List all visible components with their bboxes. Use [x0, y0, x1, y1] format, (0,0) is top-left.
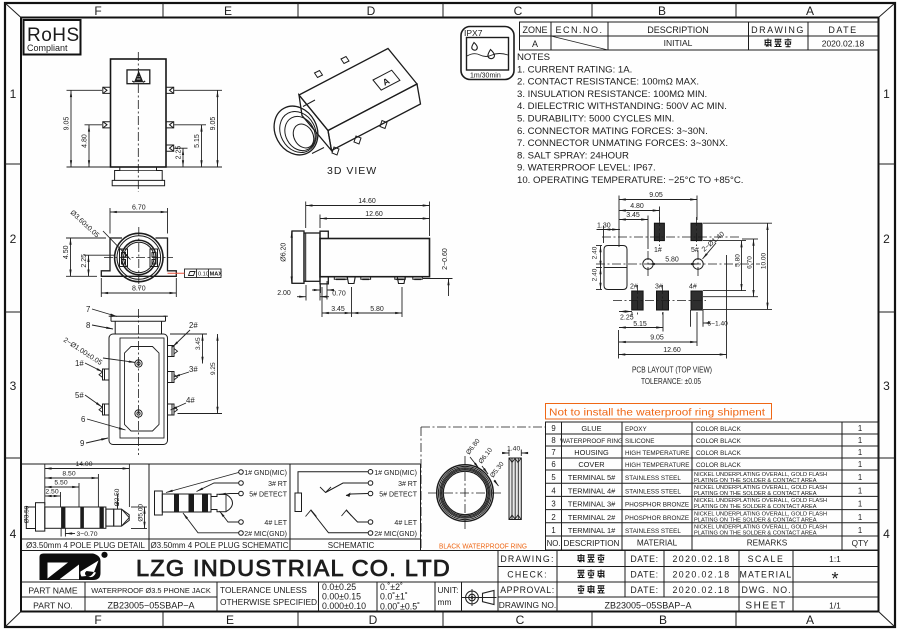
svg-text:NOTES: NOTES	[517, 52, 550, 63]
svg-text:REMARKS: REMARKS	[747, 539, 788, 548]
svg-text:7. CONNECTOR UNMATING FORCE: 7. CONNECTOR UNMATING FORCES: 3~30NX.	[517, 138, 728, 149]
svg-text:14.60: 14.60	[358, 198, 376, 205]
svg-text:3# RT: 3# RT	[268, 481, 288, 488]
svg-text:DRAWING: DRAWING	[751, 25, 805, 35]
dim 12.60	[320, 215, 430, 229]
approval table right	[498, 551, 879, 612]
svg-text:PART NAME: PART NAME	[28, 586, 77, 596]
left tabs	[99, 369, 109, 415]
terminal slots	[120, 249, 158, 267]
bracket 5-1.40	[691, 310, 708, 327]
plug handle	[36, 503, 45, 531]
top cap	[111, 316, 166, 321]
left tab pins	[103, 87, 111, 128]
dim dia2.50 tip	[117, 494, 119, 509]
svg-text:5.80: 5.80	[665, 257, 679, 264]
3d small tabs	[315, 57, 388, 156]
revision table	[520, 22, 879, 50]
svg-text:6. CONNECTOR MATING FORCES:: 6. CONNECTOR MATING FORCES: 3~30N.	[517, 126, 708, 137]
svg-text:12.60: 12.60	[365, 211, 383, 218]
svg-text:Ø3.50mm 4 POLE PLUG DETAIL: Ø3.50mm 4 POLE PLUG DETAIL	[26, 541, 146, 550]
IPX7 waterproof icon	[461, 27, 514, 80]
svg-text:1: 1	[858, 473, 862, 482]
svg-text:0.0±0.25: 0.0±0.25	[322, 582, 356, 592]
svg-text:5: 5	[551, 473, 556, 482]
dim 3.45	[619, 216, 648, 250]
bottom panels frame	[22, 464, 421, 551]
dim 4.80 left	[85, 125, 103, 167]
circular front view	[63, 205, 222, 298]
svg-text:9. WATERPROOF LEVEL: IP67.: 9. WATERPROOF LEVEL: IP67.	[517, 163, 656, 174]
svg-text:2. CONTACT RESISTANCE: 100m: 2. CONTACT RESISTANCE: 100mΩ MAX.	[517, 77, 699, 88]
hole left	[643, 259, 653, 269]
dim 9.05 bottom	[619, 312, 697, 346]
plug neck	[106, 509, 114, 526]
leader 2-dia1.40	[701, 231, 726, 259]
right tabs	[168, 346, 178, 416]
orange warning note	[546, 404, 772, 420]
plug cable end	[26, 507, 35, 529]
svg-text:3: 3	[883, 379, 890, 393]
svg-text:mm: mm	[438, 597, 452, 607]
inner rect	[120, 338, 164, 438]
dim 5.15 bottom	[619, 312, 663, 332]
svg-text:DRAWING:: DRAWING:	[500, 554, 554, 564]
insulator band 2	[80, 507, 84, 528]
svg-text:COLOR BLACK: COLOR BLACK	[696, 462, 742, 469]
dim 2.40 x2 left	[596, 246, 602, 290]
waterproof ring panel phantom border	[421, 427, 546, 551]
zone tick marks left band	[5, 164, 21, 458]
svg-text:CHECK:: CHECK:	[507, 570, 547, 580]
leader dia 3.60	[69, 209, 131, 259]
svg-text:9.05: 9.05	[650, 335, 664, 342]
svg-text:5.80: 5.80	[370, 306, 384, 313]
svg-text:MATERIAL: MATERIAL	[740, 570, 793, 580]
contact 5#	[346, 494, 368, 496]
svg-text:TERMINAL 3#: TERMINAL 3#	[568, 500, 616, 509]
dim 8.50	[45, 474, 99, 507]
svg-text:6.70: 6.70	[132, 205, 146, 212]
jack contact rect	[295, 493, 302, 512]
svg-text:9: 9	[80, 439, 84, 448]
svg-text:STAINLESS STEEL: STAINLESS STEEL	[625, 488, 681, 495]
svg-text:D: D	[367, 4, 376, 18]
svg-text:4. DIELECTRIC WITHSTANDING:: 4. DIELECTRIC WITHSTANDING: 500V AC MIN.	[517, 101, 727, 112]
svg-text:0.000±0.10: 0.000±0.10	[322, 601, 366, 611]
svg-text:4: 4	[10, 527, 17, 541]
svg-text:1: 1	[858, 424, 862, 433]
ring circles	[437, 465, 494, 522]
pad 4#	[691, 291, 702, 310]
svg-text:7: 7	[551, 448, 555, 457]
svg-text:1.30: 1.30	[597, 223, 611, 230]
svg-text:HIGH TEMPERATURE: HIGH TEMPERATURE	[625, 462, 690, 469]
svg-text:3.45: 3.45	[626, 212, 640, 219]
svg-text:PCB LAYOUT (TOP VIEW): PCB LAYOUT (TOP VIEW)	[632, 365, 712, 375]
side view	[277, 198, 452, 317]
svg-text:PLATING ON THE SOLDER & C: PLATING ON THE SOLDER & CONTACT AREA	[694, 491, 817, 497]
svg-text:TOLERANCE UNLESS: TOLERANCE UNLESS	[220, 585, 307, 595]
dim 0.70	[312, 281, 334, 300]
svg-text:0.0˚±1˚: 0.0˚±1˚	[380, 592, 408, 602]
svg-text:1: 1	[858, 513, 862, 522]
svg-text:6: 6	[81, 415, 85, 424]
sch labels	[374, 470, 418, 538]
dim 9.05 left	[67, 90, 111, 167]
svg-text:PLATING ON THE SOLDER & C: PLATING ON THE SOLDER & CONTACT AREA	[694, 504, 817, 510]
svg-text:INITIAL: INITIAL	[664, 38, 693, 48]
svg-text:C: C	[516, 613, 525, 627]
svg-text:Ø6.10: Ø6.10	[478, 447, 495, 466]
svg-text:LZG INDUSTRIAL CO. LTD: LZG INDUSTRIAL CO. LTD	[136, 555, 451, 581]
svg-text:6.70: 6.70	[747, 256, 754, 269]
svg-text:0.70: 0.70	[332, 291, 346, 298]
svg-text:ZONE: ZONE	[522, 25, 547, 35]
dim 4.80	[619, 207, 660, 222]
svg-text:COLOR BLACK: COLOR BLACK	[696, 450, 742, 457]
svg-text:1m/30min: 1m/30min	[470, 73, 501, 80]
svg-text:2020.02.18: 2020.02.18	[672, 570, 730, 580]
svg-text:PLATING ON THE SOLDER & C: PLATING ON THE SOLDER & CONTACT AREA	[694, 531, 817, 537]
svg-text:4#: 4#	[186, 396, 195, 405]
svg-text:2# MIC(GND): 2# MIC(GND)	[244, 531, 287, 538]
flange outline	[101, 238, 176, 276]
svg-text:2#: 2#	[189, 321, 198, 330]
psch bands	[174, 494, 179, 512]
plug detail drawing	[24, 461, 148, 538]
zone tick marks right band	[879, 164, 896, 458]
svg-text:0.˚±2˚: 0.˚±2˚	[380, 582, 403, 592]
svg-text:1: 1	[858, 436, 862, 445]
dim 14.60	[306, 202, 430, 237]
svg-text:1/1: 1/1	[829, 601, 841, 611]
svg-text:D: D	[369, 613, 378, 627]
top face	[299, 49, 417, 131]
pad 5#	[691, 223, 702, 240]
svg-text:2020.02.18: 2020.02.18	[822, 39, 865, 49]
svg-text:QTY: QTY	[852, 539, 869, 548]
svg-text:Compliant: Compliant	[27, 43, 68, 53]
svg-text:DRAWING NO.: DRAWING NO.	[499, 600, 556, 610]
svg-text:1#: 1#	[654, 247, 662, 254]
insulator band 1	[61, 507, 65, 528]
svg-text:WATERPROOF RING: WATERPROOF RING	[560, 438, 623, 445]
dim 4.50 left	[66, 238, 106, 276]
svg-text:PART NO.: PART NO.	[33, 601, 73, 611]
svg-text:3D VIEW: 3D VIEW	[327, 165, 377, 177]
dim 5.15 right	[174, 125, 206, 167]
pad 3#	[657, 291, 669, 310]
svg-text:2−Ø1.40: 2−Ø1.40	[701, 231, 726, 254]
svg-text:4: 4	[883, 527, 890, 541]
svg-text:MATERIAL: MATERIAL	[637, 539, 678, 548]
insulator band 3	[100, 507, 104, 528]
dim 2-0.60 right	[423, 279, 453, 297]
svg-text:Ø5.30: Ø5.30	[489, 461, 506, 480]
svg-text:8. SALT SPRAY: 24HOUR: 8. SALT SPRAY: 24HOUR	[517, 150, 629, 161]
svg-text:BLACK WATERPROOF RING: BLACK WATERPROOF RING	[439, 542, 527, 551]
right tab pins	[166, 87, 174, 151]
svg-text:DATE:: DATE:	[630, 554, 658, 564]
svg-text:ECN.NO.: ECN.NO.	[555, 25, 603, 35]
dim 2.25 left	[84, 255, 114, 276]
dim 10.00 right	[703, 223, 772, 309]
svg-text:4# LET: 4# LET	[264, 520, 287, 527]
dim 3.45 right	[170, 334, 207, 364]
svg-text:9.05: 9.05	[64, 117, 71, 131]
svg-text:GLUE: GLUE	[581, 424, 601, 433]
bottom pads	[334, 277, 422, 284]
center crosshair	[104, 257, 173, 259]
svg-text:1#: 1#	[75, 359, 84, 368]
svg-text:2: 2	[883, 232, 890, 246]
plug shaft	[45, 507, 106, 528]
barrel rings	[292, 231, 320, 283]
svg-text:14.00: 14.00	[75, 461, 92, 468]
svg-text:12.60: 12.60	[663, 347, 681, 354]
svg-text:Ø3.50: Ø3.50	[24, 505, 31, 523]
svg-text:2.40: 2.40	[592, 268, 599, 281]
svg-text:Not to install the waterpr: Not to install the waterproof ring shipm…	[549, 408, 765, 419]
switch 3#	[326, 483, 369, 493]
dim 9.05 top	[619, 196, 697, 248]
svg-text:1: 1	[10, 87, 17, 101]
dim 2.25 right	[174, 148, 187, 167]
svg-text:Ø6.20: Ø6.20	[281, 243, 288, 262]
dim 3-0.70	[61, 529, 75, 537]
svg-text:DATE:: DATE:	[630, 585, 658, 595]
front view top-left	[64, 52, 223, 192]
svg-text:0.00±0.15: 0.00±0.15	[322, 592, 361, 602]
psch neck tip	[211, 494, 233, 511]
outer body	[109, 334, 168, 445]
svg-text:1# GND(MIC): 1# GND(MIC)	[244, 470, 287, 477]
svg-text:9: 9	[551, 424, 555, 433]
zone tick marks top band	[163, 3, 736, 18]
centerlines	[596, 217, 760, 316]
svg-text:MAX: MAX	[210, 271, 223, 277]
svg-text:PLATING ON THE SOLDER & C: PLATING ON THE SOLDER & CONTACT AREA	[694, 517, 817, 523]
svg-text:TERMINAL 4#: TERMINAL 4#	[568, 486, 616, 495]
terminal circles sch	[368, 470, 373, 536]
svg-text:STAINLESS STEEL: STAINLESS STEEL	[625, 475, 681, 482]
dim 8.70 bottom	[101, 278, 176, 297]
svg-text:5.15: 5.15	[633, 321, 647, 328]
plug schematic drawing	[155, 470, 288, 538]
svg-text:5#: 5#	[75, 391, 84, 400]
svg-text:7: 7	[86, 305, 90, 314]
psch labels	[244, 470, 288, 538]
section label A box	[127, 70, 150, 84]
psch shaft	[162, 494, 211, 512]
zone numbers right	[883, 87, 890, 541]
dim 12.60 bottom	[619, 255, 727, 359]
svg-text:3#: 3#	[189, 365, 198, 374]
svg-text:WATERPROOF Ø3.5 PHONE JACK: WATERPROOF Ø3.5 PHONE JACK	[91, 586, 211, 595]
svg-text:5# DETECT: 5# DETECT	[249, 492, 287, 499]
panel captions	[26, 541, 374, 550]
dim 6.70 top	[110, 208, 168, 234]
svg-text:2: 2	[10, 232, 17, 246]
svg-text:4.80: 4.80	[630, 203, 644, 210]
svg-text:SHEET: SHEET	[745, 601, 786, 612]
screw hole bottom	[135, 410, 142, 417]
svg-text:2020.02.18: 2020.02.18	[672, 585, 730, 595]
notes text	[517, 52, 743, 186]
svg-text:UNIT:: UNIT:	[438, 585, 459, 595]
bottom view	[62, 305, 222, 455]
svg-text:TERMINAL 2#: TERMINAL 2#	[568, 513, 616, 522]
svg-text:COLOR BLACK: COLOR BLACK	[696, 426, 742, 433]
zone numbers left	[10, 87, 17, 541]
dim 5.80	[352, 287, 403, 317]
svg-text:Ø5.00: Ø5.00	[138, 504, 145, 522]
svg-text:DATE:: DATE:	[630, 570, 658, 580]
flatness callout	[168, 269, 223, 278]
svg-text:8: 8	[551, 436, 555, 445]
hole right	[693, 259, 703, 269]
svg-text:Ø6.80: Ø6.80	[465, 438, 482, 457]
svg-text:2#: 2#	[630, 284, 638, 291]
svg-text:1:1: 1:1	[829, 554, 841, 564]
dim 6.20 left	[291, 231, 293, 283]
svg-text:2: 2	[551, 513, 555, 522]
svg-text:NO.: NO.	[547, 539, 561, 548]
svg-text:ZB23005−05SBAP−A: ZB23005−05SBAP−A	[107, 601, 194, 611]
svg-text:E: E	[224, 4, 232, 18]
svg-text:1# GND(MIC): 1# GND(MIC)	[374, 470, 417, 477]
dim 2.25 bottom	[619, 312, 632, 317]
svg-text:Ø3.60±0.05: Ø3.60±0.05	[69, 209, 101, 239]
switch 4#	[342, 510, 352, 516]
svg-text:EPOXY: EPOXY	[625, 426, 647, 433]
svg-text:3# RT: 3# RT	[398, 481, 418, 488]
svg-text:5.50: 5.50	[54, 480, 67, 487]
barrel ellipses	[266, 98, 326, 162]
zone letters bottom	[94, 613, 814, 627]
svg-text:COVER: COVER	[578, 460, 604, 469]
svg-text:PHOSPHOR BRONZE: PHOSPHOR BRONZE	[625, 515, 689, 522]
svg-text:B: B	[658, 4, 666, 18]
svg-text:3.45: 3.45	[195, 337, 202, 350]
side face	[328, 84, 421, 151]
svg-text:DWG. NO.: DWG. NO.	[741, 585, 791, 595]
svg-text:10. OPERATING TEMPERATURE:: 10. OPERATING TEMPERATURE: −25°C TO +85°…	[517, 175, 743, 186]
svg-text:1. CURRENT RATING: 1A.: 1. CURRENT RATING: 1A.	[517, 64, 632, 75]
svg-text:5# DETECT: 5# DETECT	[379, 492, 417, 499]
inner slot shape	[125, 347, 160, 432]
svg-text:TERMINAL 1#: TERMINAL 1#	[568, 526, 616, 535]
centerline	[138, 309, 140, 455]
zone letters top	[94, 4, 814, 18]
svg-text:SCALE: SCALE	[748, 554, 785, 564]
svg-text:A: A	[806, 613, 814, 627]
svg-text:TOLERANCE: ±0.05: TOLERANCE: ±0.05	[641, 376, 701, 386]
svg-text:9.05: 9.05	[649, 192, 663, 199]
dim 9.25 right	[178, 334, 223, 414]
svg-text:2.25: 2.25	[620, 315, 634, 322]
dim 2.50	[45, 492, 61, 507]
svg-text:4#: 4#	[689, 284, 697, 291]
circles	[115, 233, 163, 281]
svg-text:PLATING ON THE SOLDER & C: PLATING ON THE SOLDER & CONTACT AREA	[694, 478, 817, 484]
neck	[115, 321, 161, 334]
svg-text:3: 3	[10, 379, 17, 393]
front view body	[111, 59, 167, 167]
dim 5.50	[45, 483, 79, 507]
svg-text:E: E	[226, 613, 234, 627]
svg-text:PHOSPHOR BRONZE: PHOSPHOR BRONZE	[625, 502, 689, 509]
body	[320, 231, 430, 284]
svg-text:IPX7: IPX7	[464, 28, 483, 38]
svg-text:3. INSULATION RESISTANCE: 1: 3. INSULATION RESISTANCE: 100MΩ MIN.	[517, 89, 707, 100]
dim 5.80 right	[703, 241, 746, 291]
svg-text:F: F	[94, 613, 101, 627]
svg-text:TERMINAL 5#: TERMINAL 5#	[568, 473, 616, 482]
svg-text:A: A	[532, 39, 538, 49]
dim 1.40 ring	[502, 450, 528, 457]
pin labels	[630, 247, 699, 291]
leader labels	[62, 305, 198, 448]
ring cross-section	[509, 458, 521, 520]
svg-text:DATE: DATE	[828, 25, 857, 35]
waterproof ring drawing	[428, 438, 528, 531]
dim 5.80 between holes	[648, 263, 698, 265]
svg-text:10.00: 10.00	[761, 252, 768, 269]
parts list table	[546, 422, 879, 550]
svg-text:1: 1	[858, 448, 862, 457]
dim 14.00	[45, 465, 130, 508]
dim dia5.00 right	[131, 507, 147, 529]
svg-text:8.70: 8.70	[132, 286, 146, 293]
svg-text:8.50: 8.50	[62, 471, 75, 478]
title block banner	[22, 551, 879, 612]
svg-text:3−0.70: 3−0.70	[77, 531, 98, 538]
dim 6.70 right	[703, 239, 758, 297]
svg-text:5. DURABILITY: 5000 CYCLES: 5. DURABILITY: 5000 CYCLES MIN.	[517, 114, 674, 125]
pad 1#	[654, 223, 664, 240]
RoHS compliant box	[24, 20, 81, 55]
svg-text:2020.02.18: 2020.02.18	[672, 554, 730, 564]
svg-text:2−0.60: 2−0.60	[442, 248, 449, 270]
connector outline left	[604, 246, 627, 290]
zone tick marks bottom band	[163, 612, 736, 628]
svg-text:1: 1	[883, 87, 890, 101]
psch leaders	[166, 473, 239, 533]
svg-text:HIGH TEMPERATURE: HIGH TEMPERATURE	[625, 450, 690, 457]
svg-text:DESCRIPTION: DESCRIPTION	[647, 25, 709, 35]
svg-text:C: C	[514, 4, 523, 18]
svg-text:2.50: 2.50	[45, 489, 58, 496]
svg-text:9.25: 9.25	[210, 362, 217, 375]
svg-text:4.50: 4.50	[63, 245, 70, 259]
svg-text:B: B	[659, 613, 667, 627]
svg-text:9.05: 9.05	[210, 117, 217, 131]
svg-text:SILICONE: SILICONE	[625, 438, 654, 445]
svg-text:*: *	[831, 569, 838, 589]
svg-text:F: F	[94, 4, 101, 18]
PCB layout view	[592, 192, 773, 386]
svg-text:2.40: 2.40	[592, 246, 599, 259]
svg-text:1.40: 1.40	[507, 446, 520, 453]
A box on top face	[373, 70, 400, 90]
svg-text:COLOR BLACK: COLOR BLACK	[696, 438, 742, 445]
dim 2.00	[297, 281, 329, 301]
svg-text:3#: 3#	[655, 284, 663, 291]
svg-text:4: 4	[551, 486, 556, 495]
svg-text:5−1.40: 5−1.40	[708, 321, 729, 328]
